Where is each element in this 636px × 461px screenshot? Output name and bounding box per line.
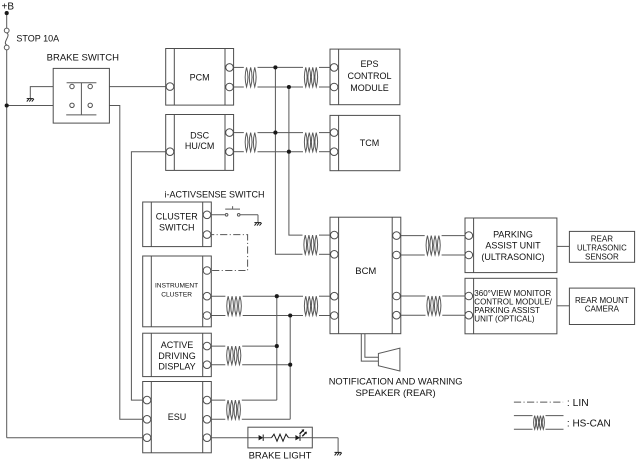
svg-text:i-ACTIVSENSE SWITCH: i-ACTIVSENSE SWITCH xyxy=(165,190,265,200)
svg-text:(ULTRASONIC): (ULTRASONIC) xyxy=(481,252,544,262)
svg-text:MODULE: MODULE xyxy=(350,83,389,93)
svg-text:CAMERA: CAMERA xyxy=(585,304,620,313)
svg-text:HU/CM: HU/CM xyxy=(185,141,215,151)
svg-text:EPS: EPS xyxy=(360,59,378,69)
svg-text:INSTRUMENT: INSTRUMENT xyxy=(155,282,198,289)
svg-text:DRIVING: DRIVING xyxy=(158,351,196,361)
svg-text:TCM: TCM xyxy=(360,138,380,148)
svg-text:UNIT (OPTICAL): UNIT (OPTICAL) xyxy=(474,315,535,324)
svg-text:PCM: PCM xyxy=(190,72,210,82)
svg-text:ACTIVE: ACTIVE xyxy=(161,340,194,350)
svg-text:PARKING: PARKING xyxy=(493,229,533,239)
svg-text:CLUSTER: CLUSTER xyxy=(161,291,192,298)
svg-text:ULTRASONIC: ULTRASONIC xyxy=(577,244,627,253)
svg-text:NOTIFICATION AND WARNING: NOTIFICATION AND WARNING xyxy=(329,377,463,387)
svg-text:SWITCH: SWITCH xyxy=(159,223,195,233)
svg-text:CLUSTER: CLUSTER xyxy=(156,212,199,222)
svg-text:DSC: DSC xyxy=(190,130,210,140)
svg-text:STOP 10A: STOP 10A xyxy=(16,33,59,43)
svg-text:+B: +B xyxy=(2,1,15,12)
svg-text:REAR: REAR xyxy=(591,234,613,243)
svg-text:CONTROL: CONTROL xyxy=(347,71,391,81)
svg-text:ASSIST UNIT: ASSIST UNIT xyxy=(485,241,541,251)
svg-text:BRAKE LIGHT: BRAKE LIGHT xyxy=(249,451,312,461)
svg-text:: HS-CAN: : HS-CAN xyxy=(567,419,611,430)
svg-text:BCM: BCM xyxy=(355,266,376,277)
svg-text:: LIN: : LIN xyxy=(567,398,589,409)
svg-text:SENSOR: SENSOR xyxy=(585,253,619,262)
svg-text:DISPLAY: DISPLAY xyxy=(158,361,195,371)
svg-text:ESU: ESU xyxy=(168,412,187,422)
svg-text:BRAKE SWITCH: BRAKE SWITCH xyxy=(47,53,119,64)
svg-text:SPEAKER (REAR): SPEAKER (REAR) xyxy=(355,388,435,399)
